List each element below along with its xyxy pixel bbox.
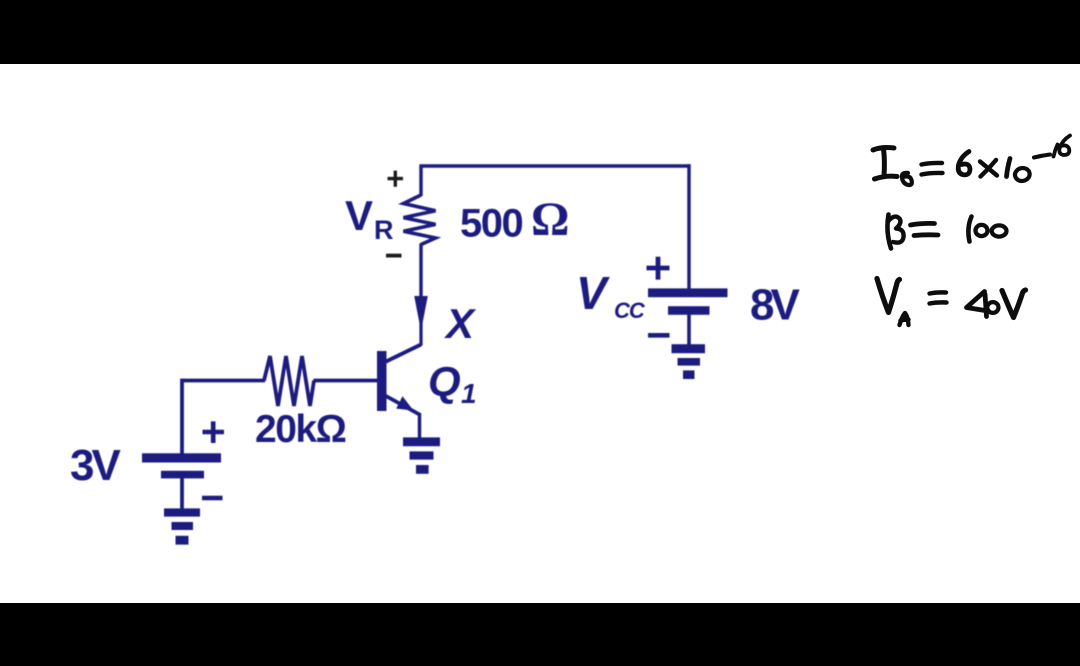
svg-text:500: 500 <box>460 202 522 246</box>
wire base horizontal right <box>314 379 379 383</box>
handwritten annotation Is = 6x10^-16 <box>873 136 1070 186</box>
svg-text:R: R <box>374 215 394 245</box>
wire resistor R to arrow <box>419 244 422 299</box>
wire 3V battery vertical <box>180 379 184 454</box>
battery 3V <box>142 453 221 478</box>
wire 3V battery to ground <box>180 478 184 510</box>
plus sign at VR (black) <box>388 171 404 187</box>
svg-text:3V: 3V <box>70 441 121 490</box>
battery Vcc <box>648 288 728 314</box>
wire top collector-to-Vcc <box>419 164 690 167</box>
plus sign Vcc battery <box>647 257 670 280</box>
resistor 20k zigzag <box>264 356 314 406</box>
svg-text:V: V <box>576 267 610 319</box>
handwritten annotation VA = 40V <box>877 279 1026 326</box>
svg-text:8V: 8V <box>750 281 800 330</box>
wire emitter vertical <box>418 413 421 438</box>
wire left vertical from top wire to resistor R <box>419 166 422 196</box>
svg-text:20kΩ: 20kΩ <box>255 408 346 451</box>
minus sign 3V battery <box>202 496 223 500</box>
current direction arrow into node X <box>414 296 428 331</box>
ground at emitter <box>403 437 440 473</box>
svg-text:X: X <box>444 300 477 347</box>
svg-text:V: V <box>345 192 373 239</box>
svg-text:1: 1 <box>461 378 477 409</box>
minus sign at VR (black) <box>386 254 402 258</box>
svg-text:Q: Q <box>428 358 461 406</box>
wire arrow stub to collector <box>419 318 422 346</box>
svg-text:Ω: Ω <box>531 193 569 246</box>
ground at 3V battery <box>164 508 200 544</box>
resistor R 500 ohm zigzag <box>404 195 436 245</box>
svg-text:CC: CC <box>614 298 646 323</box>
transistor Q1 <box>377 345 421 415</box>
plus sign 3V battery <box>203 421 225 443</box>
minus sign Vcc battery <box>648 333 670 338</box>
wire Vcc battery to ground <box>687 315 691 346</box>
wire base horizontal left <box>182 379 265 383</box>
wire right vertical to Vcc battery <box>687 164 690 290</box>
handwritten annotation beta = 100 <box>887 215 1006 249</box>
ground at Vcc battery <box>672 344 706 379</box>
